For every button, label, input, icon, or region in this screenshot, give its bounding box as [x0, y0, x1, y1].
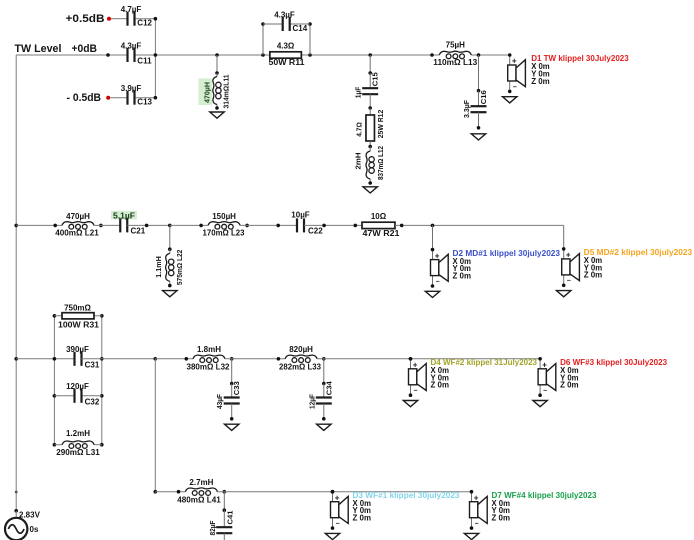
svg-text:47W R21: 47W R21	[363, 229, 401, 238]
svg-text:C41: C41	[226, 511, 235, 525]
svg-text:82µF: 82µF	[208, 520, 217, 535]
svg-text:150µH: 150µH	[212, 212, 236, 221]
svg-text:50W R11: 50W R11	[269, 58, 306, 67]
svg-text:Z 0m: Z 0m	[353, 514, 372, 523]
svg-text:–: –	[567, 278, 571, 285]
svg-text:2.83V: 2.83V	[19, 511, 41, 520]
svg-text:C16: C16	[479, 90, 488, 104]
svg-text:10Ω: 10Ω	[371, 212, 387, 221]
svg-text:+0dB: +0dB	[72, 43, 98, 55]
svg-text:470µH: 470µH	[203, 82, 212, 103]
svg-text:290mΩ L31: 290mΩ L31	[56, 448, 100, 457]
svg-text:Z 0m: Z 0m	[560, 381, 579, 390]
svg-text:4.7Ω: 4.7Ω	[355, 122, 364, 137]
svg-text:Z 0m: Z 0m	[431, 381, 450, 390]
svg-text:4.3Ω: 4.3Ω	[277, 42, 295, 51]
svg-text:575mΩ L22: 575mΩ L22	[175, 250, 184, 286]
svg-text:1.1mH: 1.1mH	[154, 256, 163, 278]
svg-text:C15: C15	[371, 72, 380, 86]
svg-text:C14: C14	[293, 24, 308, 33]
svg-text:100W R31: 100W R31	[58, 321, 100, 330]
svg-text:3.9µF: 3.9µF	[121, 84, 142, 93]
svg-text:4.7µF: 4.7µF	[121, 5, 142, 14]
svg-text:C34: C34	[324, 380, 333, 395]
svg-text:Z 0m: Z 0m	[531, 77, 550, 86]
svg-text:10µF: 10µF	[291, 211, 310, 220]
svg-text:4.3µF: 4.3µF	[274, 11, 295, 20]
svg-text:C11: C11	[137, 57, 152, 66]
svg-text:110mΩ L13: 110mΩ L13	[433, 58, 478, 67]
svg-text:25W R12: 25W R12	[376, 110, 385, 139]
svg-text:2.7mH: 2.7mH	[189, 478, 213, 487]
svg-text:+0.5dB: +0.5dB	[66, 13, 105, 25]
svg-text:TW Level: TW Level	[15, 43, 62, 55]
svg-text:4.3µF: 4.3µF	[121, 42, 142, 51]
svg-text:820µH: 820µH	[289, 345, 313, 354]
svg-text:Z 0m: Z 0m	[453, 271, 472, 280]
svg-text:170mΩ L23: 170mΩ L23	[203, 228, 246, 237]
svg-text:Z 0m: Z 0m	[584, 271, 603, 280]
svg-text:C22: C22	[308, 227, 323, 236]
svg-text:–: –	[414, 388, 418, 395]
svg-text:1.2mH: 1.2mH	[66, 429, 90, 438]
svg-text:Z 0m: Z 0m	[492, 514, 511, 523]
svg-text:C33: C33	[232, 381, 241, 395]
svg-text:12µF: 12µF	[307, 394, 316, 409]
svg-text:- 0.5dB: - 0.5dB	[67, 92, 102, 104]
svg-text:314mΩL11: 314mΩL11	[222, 75, 231, 109]
svg-text:400mΩ L21: 400mΩ L21	[55, 228, 99, 237]
svg-text:C31: C31	[85, 361, 100, 370]
svg-text:C12: C12	[137, 19, 152, 28]
svg-text:470µH: 470µH	[66, 212, 90, 221]
svg-text:480mΩ L41: 480mΩ L41	[177, 496, 221, 505]
svg-text:–: –	[513, 84, 517, 91]
svg-text:3.3µF: 3.3µF	[462, 100, 471, 118]
svg-text:1.8mH: 1.8mH	[197, 345, 221, 354]
svg-text:2mH: 2mH	[354, 153, 363, 170]
svg-text:390µF: 390µF	[66, 345, 89, 354]
svg-text:750mΩ: 750mΩ	[64, 304, 91, 313]
svg-text:0s: 0s	[30, 525, 39, 534]
svg-text:282mΩ L33: 282mΩ L33	[279, 363, 322, 372]
svg-text:75µH: 75µH	[446, 41, 466, 50]
svg-text:43µF: 43µF	[215, 394, 224, 409]
svg-text:380mΩ L32: 380mΩ L32	[187, 363, 231, 372]
svg-text:C32: C32	[85, 398, 100, 407]
svg-text:120µF: 120µF	[66, 382, 89, 391]
svg-text:5.1µF: 5.1µF	[113, 212, 135, 221]
svg-text:837mΩ L12: 837mΩ L12	[376, 146, 385, 180]
svg-text:1µF: 1µF	[354, 86, 363, 98]
svg-text:–: –	[543, 388, 547, 395]
svg-text:C21: C21	[131, 226, 146, 235]
svg-text:C13: C13	[137, 98, 152, 107]
svg-text:–: –	[436, 278, 440, 285]
svg-text:–: –	[475, 521, 479, 528]
svg-text:–: –	[336, 521, 340, 528]
